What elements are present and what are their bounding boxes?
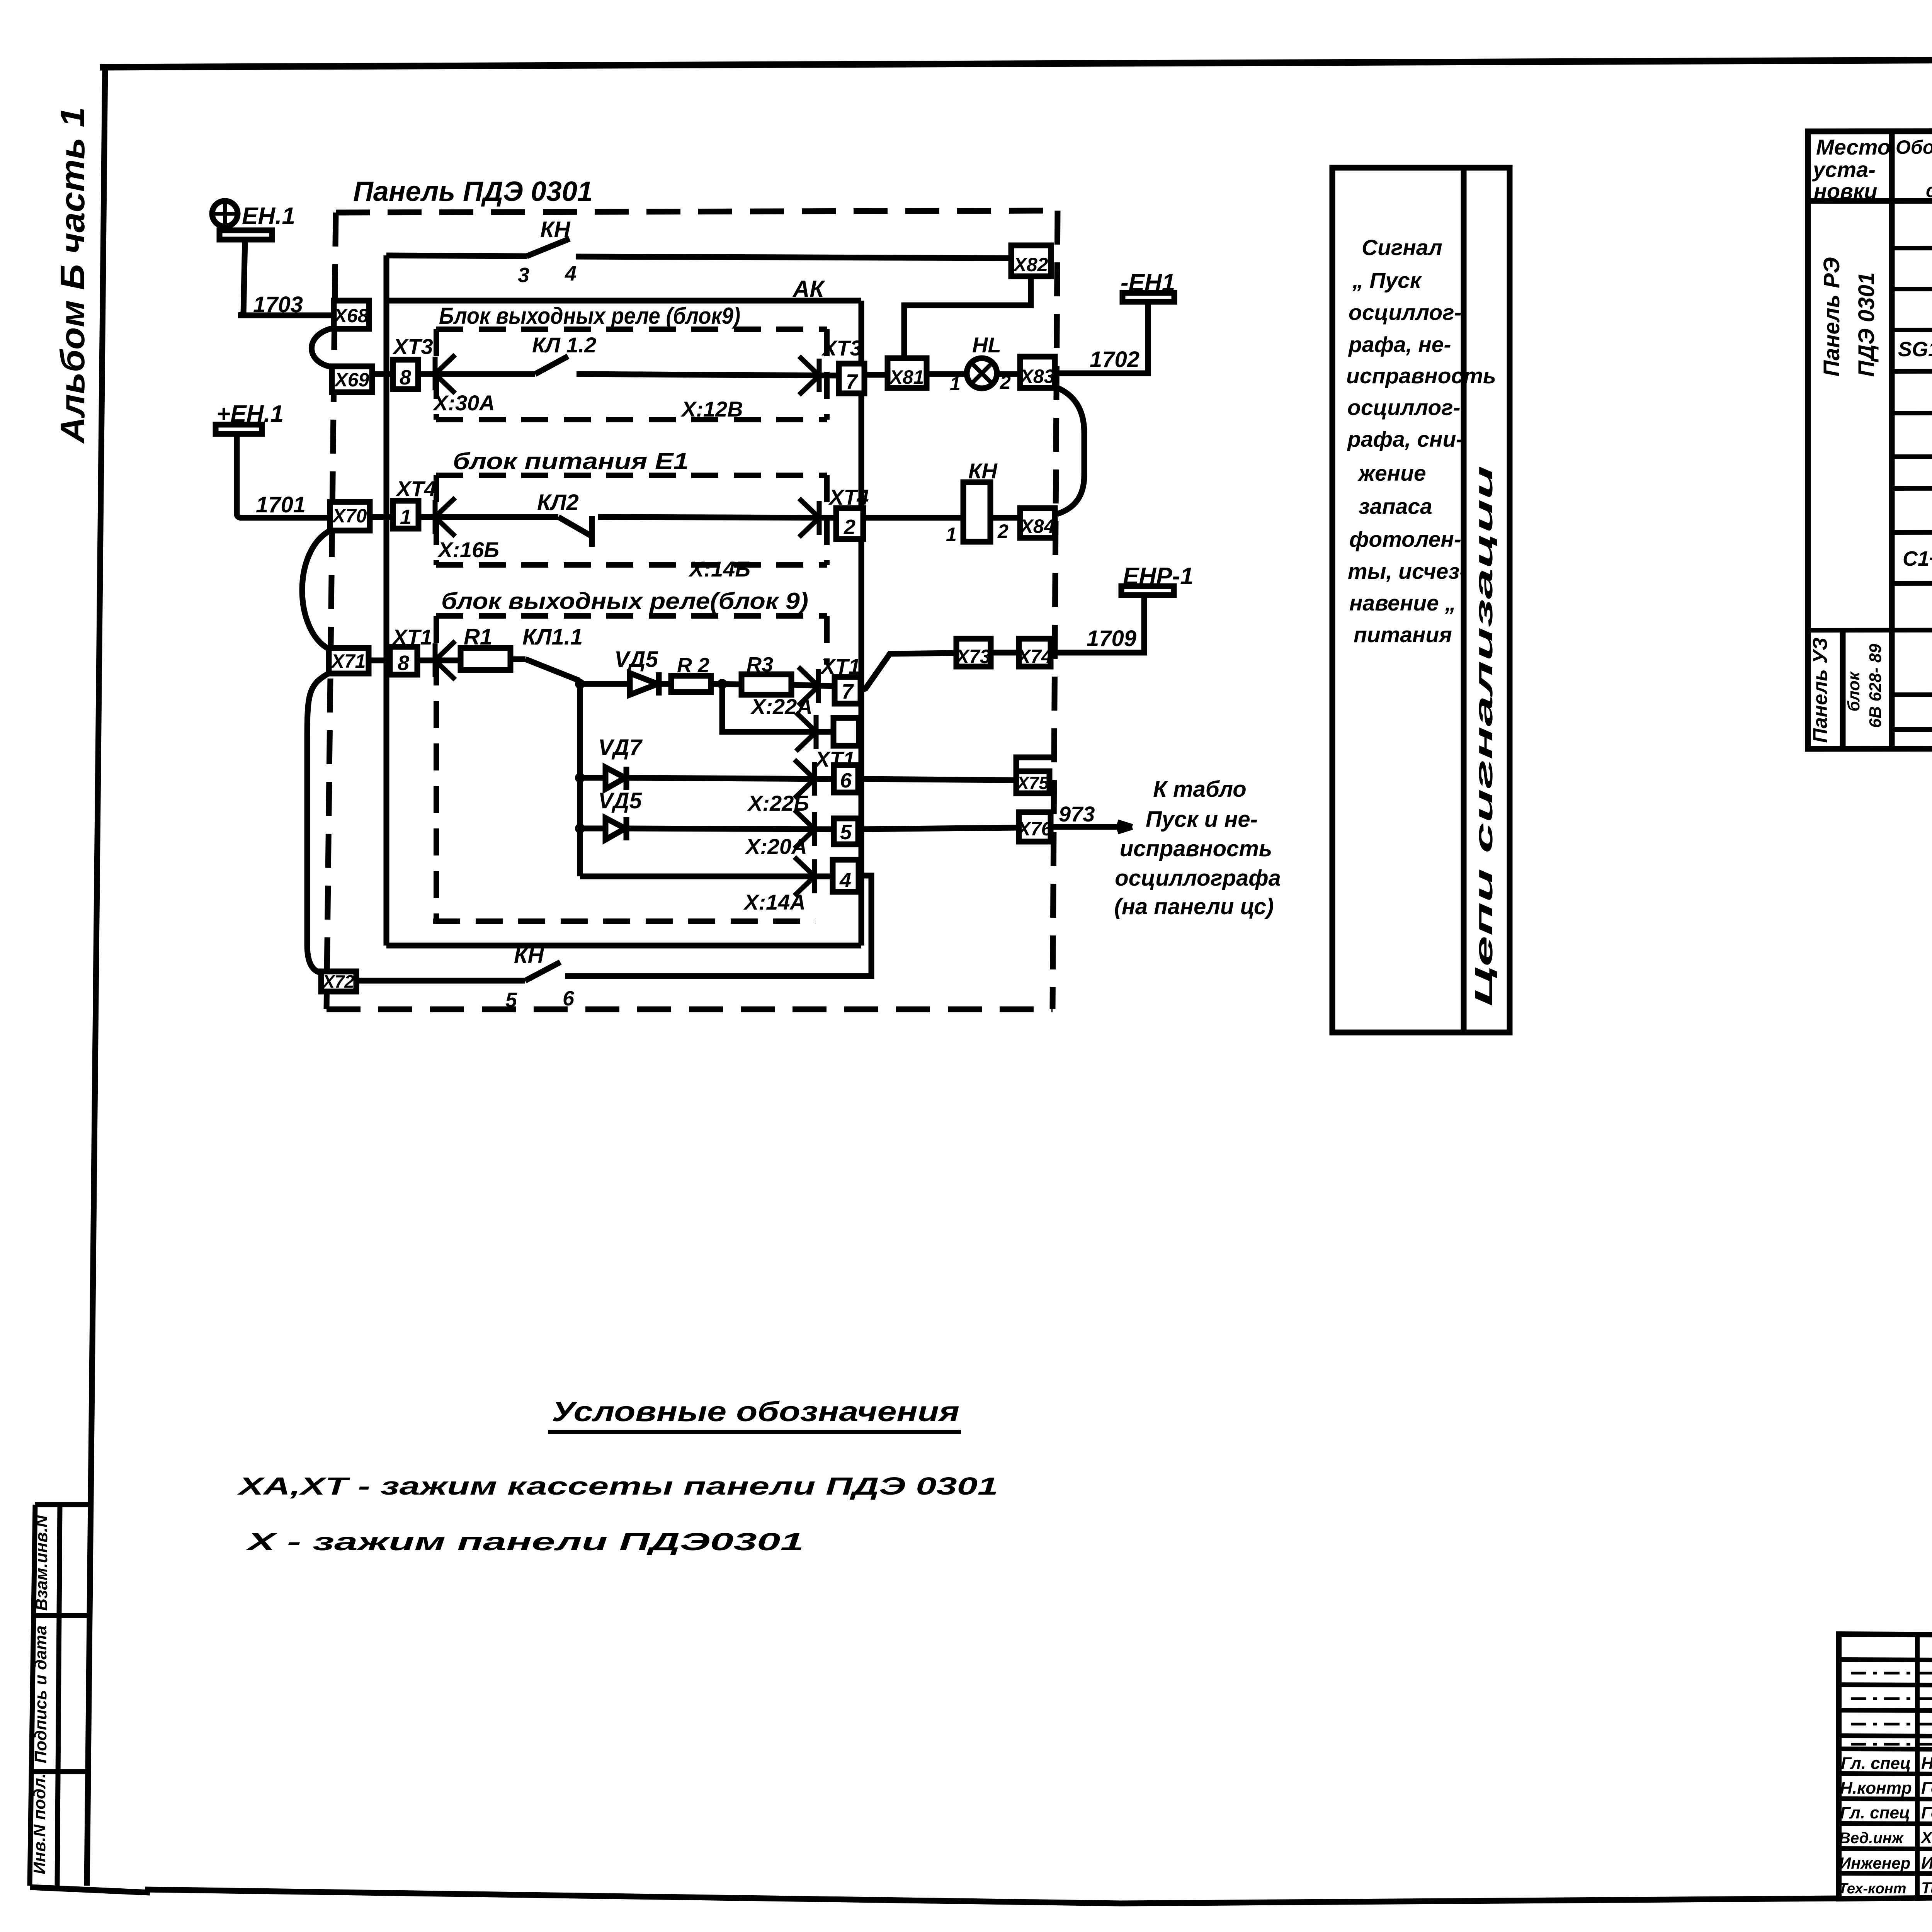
electrode EHP-1 bar <box>1121 586 1174 595</box>
svg-text:6: 6 <box>563 987 575 1010</box>
title block outline <box>1839 1634 1932 1899</box>
table row line RS <box>1892 329 1932 330</box>
SIGNAL COLUMN BOX <box>1332 168 1510 1032</box>
terminal X75 <box>1016 771 1049 793</box>
chevron row4 right <box>798 667 818 706</box>
svg-text:жение: жение <box>1357 461 1426 486</box>
wire X73 to X74 <box>991 650 1019 656</box>
wire VD5 to R2 <box>658 681 671 687</box>
branch junction to spare terminal <box>722 684 833 732</box>
chevron row7 right <box>794 857 815 896</box>
svg-text:X82: X82 <box>1013 254 1048 276</box>
wire R3 to XT1-7 <box>791 685 835 686</box>
svg-text:8: 8 <box>398 651 409 675</box>
svg-text:-ЕН1: -ЕН1 <box>1121 269 1175 296</box>
svg-text:ХТ1: ХТ1 <box>820 654 861 679</box>
table row line SB <box>1892 488 1932 488</box>
wire XT3-7 to X81 <box>864 372 888 378</box>
contact KH 5-6 blade <box>525 962 560 981</box>
wire row1 left <box>386 255 527 256</box>
svg-text:Инв.N подл.: Инв.N подл. <box>30 1773 49 1874</box>
wire VD5b to XT1-5 <box>625 828 834 829</box>
svg-text:Инженер: Инженер <box>1839 1854 1910 1872</box>
table row line HL <box>1892 456 1932 457</box>
svg-text:ЕНР-1: ЕНР-1 <box>1123 563 1194 590</box>
svg-text:фотолен-: фотолен- <box>1349 527 1461 552</box>
svg-text:1703: 1703 <box>253 292 303 317</box>
block3 left edge <box>434 616 439 921</box>
wire X69 to XT3-8 <box>372 371 393 377</box>
wire 973 out with arrow <box>1051 822 1132 832</box>
table header bottom <box>1808 200 1932 201</box>
terminal X68 <box>334 301 369 329</box>
ROW 5 wires <box>575 757 1052 790</box>
svg-text:рафа, сни-: рафа, сни- <box>1347 427 1463 452</box>
terminal X76 <box>1019 812 1051 842</box>
chevron row6 right <box>794 810 815 849</box>
table row line SG <box>1892 371 1932 371</box>
wire XT4-1 to contact KL2 <box>418 514 558 520</box>
ROW 4 wires <box>369 586 1174 876</box>
svg-text:КН: КН <box>540 217 571 242</box>
svg-text:X71: X71 <box>330 650 366 672</box>
chevron row2 right <box>799 356 819 395</box>
svg-text:2: 2 <box>1000 371 1011 393</box>
svg-text:Место: Место <box>1816 135 1891 159</box>
svg-text:новки: новки <box>1814 179 1877 203</box>
terminal labels <box>321 254 1055 992</box>
svg-text:X:12В: X:12В <box>680 397 743 421</box>
svg-text:Горелик: Горелик <box>1921 1779 1932 1798</box>
wire X72 to contact <box>356 978 525 984</box>
svg-text:С1÷С12: С1÷С12 <box>1903 547 1932 570</box>
terminal XT1-8 <box>390 647 417 675</box>
chevron row2 left <box>435 355 455 393</box>
wire R1 to contact <box>510 656 526 662</box>
svg-text:X75: X75 <box>1016 773 1049 793</box>
diode VD5 lower <box>605 817 626 840</box>
terminal chevrons <box>435 355 819 896</box>
svg-text:1709: 1709 <box>1087 626 1136 651</box>
terminal XT4-1 <box>393 501 418 529</box>
svg-text:ХТ3: ХТ3 <box>821 336 862 360</box>
chevron spare right <box>796 713 816 751</box>
block1 top edge <box>436 327 827 332</box>
wire contact to XT3-7 <box>577 374 839 376</box>
ROW 2 wires <box>372 276 1174 514</box>
svg-text:Подпись и дата: Подпись и дата <box>31 1626 50 1764</box>
frame bottom border <box>30 1887 1838 1903</box>
block3 top edge <box>436 613 827 619</box>
block2 right edge <box>824 475 830 565</box>
contact KL1.2 blade <box>535 356 568 374</box>
svg-text:блок: блок <box>1844 671 1863 711</box>
svg-text:X:30А: X:30А <box>432 391 495 415</box>
ground electrode EH.1 circle symbol <box>212 201 238 226</box>
svg-text:R3: R3 <box>747 653 773 676</box>
svg-text:1: 1 <box>400 505 412 529</box>
terminal X82 <box>1011 245 1051 276</box>
svg-text:Панель РЭ: Панель РЭ <box>1819 257 1844 377</box>
svg-text:блок выходных реле(блок 9): блок выходных реле(блок 9) <box>441 588 808 614</box>
svg-text:рафа, не-: рафа, не- <box>1348 332 1451 357</box>
svg-text:К табло: К табло <box>1153 777 1247 802</box>
svg-text:X83: X83 <box>1019 366 1055 387</box>
wire X83 to X84 curve <box>1056 387 1084 514</box>
chevron row5 right <box>794 760 815 798</box>
wire XT1-8 to R1 <box>417 658 461 663</box>
DASHED BLOCK 3 <box>433 616 827 921</box>
svg-text:КН: КН <box>514 943 544 968</box>
svg-text:Условные обозначения: Условные обозначения <box>552 1396 959 1427</box>
block3 right edge <box>824 616 830 665</box>
wire 1701 stem <box>237 434 242 518</box>
resistor R3 body <box>742 674 791 695</box>
svg-text:8: 8 <box>400 366 411 389</box>
chevron row4 left <box>435 641 455 680</box>
table row line AK <box>1892 247 1932 248</box>
svg-text:исправность: исправность <box>1120 836 1272 861</box>
block1 bottom edge <box>436 417 827 422</box>
svg-text:X73: X73 <box>955 646 991 667</box>
svg-text:VД7: VД7 <box>598 735 643 760</box>
svg-text:Панель ПДЭ 0301: Панель ПДЭ 0301 <box>353 176 593 207</box>
svg-text:питания: питания <box>1354 622 1452 647</box>
diode VD5 <box>630 672 659 696</box>
svg-text:6: 6 <box>840 769 852 792</box>
electrode EH.1 bar <box>219 230 272 240</box>
svg-text:ХА,ХТ - зажим кассеты пан: ХА,ХТ - зажим кассеты панели ПДЭ 0301 <box>237 1472 998 1500</box>
svg-text:973: 973 <box>1059 802 1095 826</box>
contact KL2 blade <box>558 516 592 547</box>
wire XT1-5 to X76 <box>858 828 1019 829</box>
ROW 7 wires <box>356 876 871 981</box>
diode VD7 <box>605 767 626 790</box>
svg-text:запаса: запаса <box>1359 494 1432 519</box>
wire XT3-8 to contact <box>418 371 535 377</box>
connector bump X68 to X69 <box>311 328 335 367</box>
svg-text:ПДЭ 0301: ПДЭ 0301 <box>1854 272 1879 377</box>
svg-text:X70: X70 <box>332 505 367 527</box>
svg-text:X76: X76 <box>1017 818 1053 840</box>
svg-text:Никитин: Никитин <box>1921 1754 1932 1773</box>
wire X82 down to X81 <box>904 276 1031 359</box>
main title block frame <box>1839 1634 1932 1901</box>
svg-text:ХТ1: ХТ1 <box>391 625 432 649</box>
wire XT1-6 to X75 <box>858 779 1016 780</box>
svg-text:(на панели цс): (на панели цс) <box>1114 894 1274 919</box>
svg-text:ХТ4: ХТ4 <box>828 485 869 509</box>
panel dashed border bottom <box>327 1007 1053 1012</box>
wire lamp to X83 <box>996 371 1020 377</box>
svg-text:КЛ1.1: КЛ1.1 <box>522 624 583 650</box>
chevron row3 left <box>435 498 455 536</box>
svg-text:Гл. спец: Гл. спец <box>1841 1754 1911 1773</box>
wire X71 down to X72 <box>307 673 329 973</box>
svg-text:Взам.инв.N: Взам.инв.N <box>32 1515 51 1611</box>
block3 bottom edge <box>433 918 816 924</box>
wire X71 to XT1-8 <box>369 658 390 663</box>
frame left border <box>87 65 105 1886</box>
svg-text:+ЕН.1: +ЕН.1 <box>216 401 284 427</box>
svg-text:осциллог-: осциллог- <box>1347 395 1461 420</box>
terminal X81 <box>888 358 927 388</box>
signature table header rows <box>1839 1660 1932 1661</box>
electrode +EH.1 bar <box>216 425 262 434</box>
terminal boxes <box>321 245 1055 992</box>
ROW 6 wires <box>575 817 1132 840</box>
svg-text:осциллографа: осциллографа <box>1115 866 1281 891</box>
left sidebar mini table <box>30 1505 35 1886</box>
svg-text:X84: X84 <box>1019 515 1055 537</box>
signature rows text <box>1838 1754 1932 1897</box>
svg-text:Альбом Б часть 1: Альбом Б часть 1 <box>53 107 92 444</box>
panel dashed border left <box>327 213 336 1009</box>
svg-text:X68: X68 <box>333 305 369 327</box>
svg-text:HL: HL <box>972 333 1001 357</box>
contact KL1.1 blade <box>526 659 580 684</box>
svg-text:VД5: VД5 <box>598 788 642 813</box>
terminal XT1-4 <box>833 860 859 892</box>
svg-text:X81: X81 <box>889 366 924 388</box>
vertical bus wire left <box>384 255 389 946</box>
signal text block <box>1346 235 1496 647</box>
terminal X70 <box>330 502 370 531</box>
terminal XT3-8 <box>393 360 418 389</box>
svg-text:X:16Б: X:16Б <box>437 537 499 562</box>
svg-text:6В 628- 89: 6В 628- 89 <box>1866 644 1885 728</box>
wire junction to diode VD5 <box>580 681 630 687</box>
terminal X84 <box>1020 508 1055 538</box>
svg-text:X:14Б: X:14Б <box>688 557 750 581</box>
terminal XT4-2 <box>836 508 863 539</box>
svg-text:X74: X74 <box>1017 646 1052 667</box>
terminal X72 <box>321 971 356 992</box>
svg-text:КЛ2: КЛ2 <box>537 490 579 515</box>
svg-text:Тимофеева: Тимофеева <box>1921 1879 1932 1897</box>
wire X70 to XT4-1 <box>370 514 393 520</box>
svg-text:VД5: VД5 <box>614 647 658 672</box>
block2 top edge <box>436 473 827 478</box>
table section split <box>1808 629 1932 630</box>
junction bus vertical <box>577 681 583 876</box>
svg-text:осциллог-: осциллог- <box>1349 300 1462 325</box>
svg-text:4: 4 <box>839 869 851 892</box>
X75 notch <box>1016 757 1052 771</box>
DASHED BLOCK 2 <box>436 475 827 565</box>
ROW 3 wires <box>370 482 1020 547</box>
svg-text:1702: 1702 <box>1090 347 1139 372</box>
signature rows <box>1839 1749 1932 1750</box>
svg-text:Пуск и не-: Пуск и не- <box>1146 807 1258 832</box>
svg-text:X69: X69 <box>334 369 369 391</box>
dashes in empty header rows <box>1851 1673 1932 1744</box>
block1 right edge <box>824 329 830 420</box>
cassette outline top <box>386 298 861 304</box>
svg-text:SG1÷SG4: SG1÷SG4 <box>1898 338 1932 361</box>
table row line C1-C12 <box>1892 583 1932 583</box>
svg-text:2: 2 <box>997 520 1009 542</box>
panel dashed border top <box>336 211 1058 213</box>
cassette outline right <box>859 301 864 946</box>
svg-text:1: 1 <box>946 524 957 545</box>
wire XT4-2 to button KH <box>863 515 963 521</box>
svg-text:КН: КН <box>968 459 998 483</box>
svg-text:4: 4 <box>565 262 577 285</box>
svg-text:ХТ1: ХТ1 <box>814 747 855 771</box>
table row line empty <box>1892 729 1932 730</box>
terminal XT1-7 <box>835 677 861 704</box>
SCHEMATIC <box>327 211 1058 1009</box>
block2 bottom edge <box>436 562 827 568</box>
svg-text:уста-: уста- <box>1812 157 1876 182</box>
wire bus corner to XT1-4 <box>580 874 833 879</box>
svg-text:X72: X72 <box>321 971 354 992</box>
resistor R2 body <box>671 676 711 692</box>
table row line KN <box>1892 532 1932 532</box>
svg-text:R1: R1 <box>464 624 492 650</box>
svg-text:7: 7 <box>842 680 854 703</box>
terminal XT1-6 <box>834 765 858 793</box>
terminal XT3-7 <box>839 364 864 393</box>
resistor R1 body <box>461 648 510 670</box>
connector bump X70 to X71 <box>302 530 331 649</box>
wire VD7 to XT1-6 <box>625 778 834 779</box>
svg-text:ЕН.1: ЕН.1 <box>242 203 295 230</box>
svg-text:Панель УЗ: Панель УЗ <box>1809 638 1832 743</box>
wire X81 to lamp <box>927 371 968 377</box>
wire 1703 stem <box>239 240 245 315</box>
svg-text:5: 5 <box>505 988 517 1012</box>
terminal X69 <box>332 366 372 392</box>
electrode -EH1 bar <box>1122 293 1174 302</box>
svg-text:Х - зажим панели: Х - зажим панели ПДЭ0301 <box>245 1528 804 1556</box>
ROW 1 : KH 3-4 <box>386 239 1012 258</box>
table row line SA <box>1892 412 1932 413</box>
svg-text:Иванова: Иванова <box>1921 1854 1932 1872</box>
signal box outline <box>1332 168 1510 1032</box>
terminal X73 <box>956 639 991 667</box>
wire XT1-4 out down and left <box>565 876 871 976</box>
wire R2 to R3 with junction <box>711 684 742 684</box>
table row line RO <box>1892 288 1932 289</box>
K tablo note text <box>1114 777 1281 919</box>
svg-text:1701: 1701 <box>256 492 306 517</box>
svg-text:Вед.инж: Вед.инж <box>1839 1830 1904 1847</box>
wire 1709 X74 to EHP-1 <box>1051 595 1144 653</box>
svg-text:ты, исчез-: ты, исчез- <box>1348 559 1467 584</box>
table row line SF1 <box>1892 694 1932 695</box>
terminal X83 <box>1020 357 1055 388</box>
svg-text:Блок выходных реле (блок9): Блок выходных реле (блок9) <box>439 303 740 329</box>
svg-text:АК: АК <box>792 276 825 302</box>
table outer border <box>1808 131 1932 749</box>
panel dashed border right <box>1053 211 1058 1009</box>
block2 left edge <box>434 475 439 565</box>
wire 1702 X83 to -EH1 <box>1055 302 1148 373</box>
signature table columns <box>1915 1634 1920 1901</box>
svg-text:5: 5 <box>840 821 852 844</box>
svg-text:3: 3 <box>518 264 529 287</box>
svg-text:ХТ4: ХТ4 <box>395 476 436 501</box>
svg-text:исправность: исправность <box>1346 364 1496 388</box>
wire 1701 horizontal <box>240 515 332 521</box>
table header texts <box>1812 135 1932 203</box>
table col1 inner split <box>1840 630 1846 748</box>
svg-text:Горелик: Горелик <box>1921 1803 1932 1822</box>
wire junction to diode VD7 <box>580 775 605 781</box>
svg-text:ХТ3: ХТ3 <box>392 334 433 359</box>
terminal XT1 spare <box>833 718 859 746</box>
lamp HL circle <box>967 358 997 388</box>
wire row1 right <box>576 257 1012 258</box>
table column line 1 <box>1889 131 1895 748</box>
block1 left edge <box>434 329 439 420</box>
svg-text:Н.контр: Н.контр <box>1840 1779 1912 1798</box>
terminal XT1-5 <box>834 818 858 844</box>
svg-text:Цепи сигнализации: Цепи сигнализации <box>1470 466 1498 1007</box>
wire junction to diode VD5b <box>580 826 605 832</box>
svg-text:R 2: R 2 <box>677 654 709 677</box>
svg-text:2: 2 <box>844 515 855 539</box>
contact KH blade <box>527 239 570 256</box>
wire button KH to X84 <box>990 515 1020 521</box>
svg-text:схеме: схеме <box>1926 180 1932 201</box>
signal box divider <box>1461 168 1467 1032</box>
DASHED BLOCK 1 <box>436 329 827 420</box>
wire 1703 horizontal <box>238 313 335 318</box>
svg-text:блок питания Е1: блок питания Е1 <box>453 448 689 474</box>
svg-text:7: 7 <box>846 370 859 393</box>
svg-text:КЛ 1.2: КЛ 1.2 <box>532 333 596 357</box>
svg-text:Гл. спец: Гл. спец <box>1840 1803 1910 1822</box>
svg-text:навение „: навение „ <box>1349 591 1456 616</box>
wire XT1-7 up to X73 <box>861 653 956 690</box>
button KH body <box>963 482 990 542</box>
chevron row3 right <box>799 498 819 537</box>
svg-text:1: 1 <box>950 373 961 395</box>
svg-text:Хрипункова: Хрипункова <box>1920 1828 1932 1847</box>
table data rows <box>1898 207 1932 686</box>
cassette outline bottom <box>386 943 861 949</box>
terminal X71 <box>329 648 369 673</box>
terminal X74 <box>1019 639 1051 667</box>
svg-text:„ Пуск: „ Пуск <box>1352 268 1422 293</box>
svg-text:Тех-конт: Тех-конт <box>1838 1881 1906 1897</box>
frame top border <box>100 57 1932 67</box>
wire contact to XT4-2 <box>598 517 836 518</box>
svg-text:Обозначено: Обозначено <box>1896 136 1932 158</box>
svg-text:Сигнал: Сигнал <box>1362 235 1442 260</box>
